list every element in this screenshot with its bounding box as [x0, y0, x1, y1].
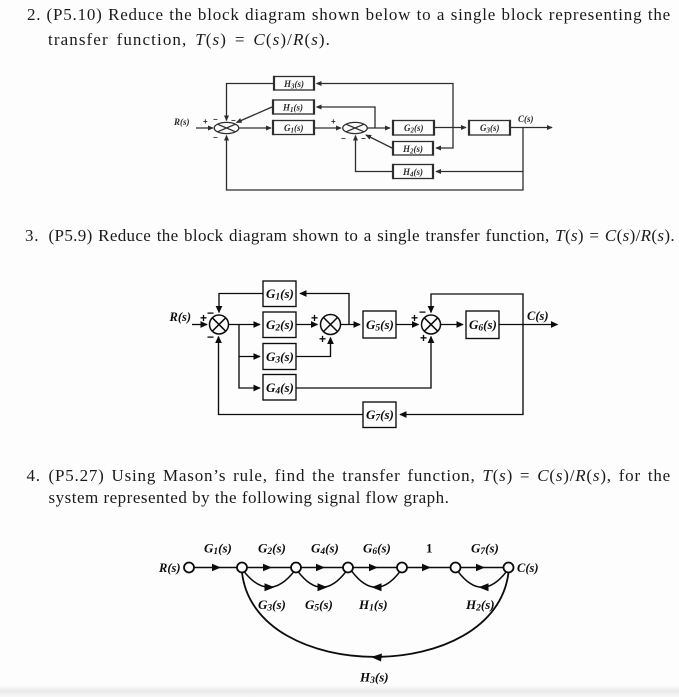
node signs at J3: [411, 305, 427, 345]
svg-text:+: +: [319, 332, 326, 346]
node n6: [451, 563, 461, 573]
node signs at J1: [200, 306, 214, 344]
label G4(s): [311, 541, 339, 558]
label H3(s): [359, 670, 389, 687]
block G3: [469, 121, 510, 136]
summer J1: [210, 315, 229, 334]
block H3: [274, 77, 314, 91]
wire tap down to H2: [436, 128, 453, 149]
wire C tap down to H4: [436, 128, 523, 172]
wire n5 to n6, gain 1: [407, 567, 450, 569]
wire S2 to G2 with tap node: [367, 127, 390, 129]
label G1(s): [204, 541, 232, 558]
svg-text:R(s): R(s): [173, 117, 190, 127]
block H4: [393, 165, 433, 179]
node C(s) output label: [518, 114, 534, 124]
wire R to n2, gain G1: [194, 567, 237, 569]
svg-text:G5(s): G5(s): [305, 597, 333, 614]
node R: [184, 563, 194, 573]
block G2: [263, 312, 296, 338]
wire H1 to S1 diagonal: [237, 107, 273, 123]
node n3: [291, 563, 301, 573]
svg-text:+: +: [311, 311, 318, 325]
block G7: [363, 402, 396, 428]
node n5: [397, 563, 407, 573]
svg-text:G6(s): G6(s): [363, 541, 391, 558]
wire G5 to J3: [396, 324, 419, 326]
wire G2 to G3: [434, 127, 466, 129]
wire G1 output to J1 top: [219, 294, 263, 313]
node n2: [237, 563, 247, 573]
svg-text:G1(s): G1(s): [284, 123, 304, 135]
svg-text:G3(s): G3(s): [258, 597, 286, 614]
wire G1 input tap from after J2: [300, 294, 349, 325]
svg-text:G5(s): G5(s): [366, 317, 394, 334]
block G3: [263, 344, 296, 370]
wire n6 to nC, gain G7: [461, 567, 504, 569]
node plus sign at S1: [203, 115, 236, 142]
paragraph item 4: [27, 466, 41, 486]
block H1: [273, 100, 314, 114]
label G3(s): [258, 597, 286, 614]
node C(s) label: [517, 561, 539, 575]
svg-text:+: +: [411, 311, 418, 325]
svg-text:G7(s): G7(s): [471, 541, 499, 558]
arc H1 n5 back to n4: [352, 572, 400, 588]
wire G7 output to J1 bottom: [219, 337, 364, 415]
summer J2: [321, 315, 341, 335]
svg-text:H2(s): H2(s): [402, 144, 423, 156]
summer S2: [343, 122, 368, 133]
node R(s) label: [158, 561, 181, 575]
svg-text:+: +: [203, 117, 208, 126]
block G1: [273, 121, 314, 135]
wire G3 to C(s) output: [510, 127, 552, 129]
bottom gray band: [0, 686, 679, 697]
wire tap to H1: [317, 107, 376, 128]
arc G5 n3 to n4: [298, 572, 346, 588]
svg-text:G4(s): G4(s): [311, 541, 339, 558]
wire G2 to J2: [296, 324, 318, 326]
summer J3: [422, 315, 441, 334]
wire branch to G4: [239, 357, 260, 389]
label G5(s): [305, 597, 333, 614]
svg-text:−: −: [341, 134, 346, 143]
block G5: [363, 311, 396, 338]
wire J3 to G6: [441, 324, 464, 326]
svg-text:G2(s): G2(s): [258, 541, 286, 558]
block G2: [393, 121, 434, 136]
svg-text:C(s): C(s): [517, 561, 539, 575]
wire J2 to G5: [341, 324, 361, 326]
svg-text:G2(s): G2(s): [404, 123, 424, 135]
svg-text:H3(s): H3(s): [359, 670, 389, 687]
svg-text:G7(s): G7(s): [366, 407, 394, 424]
svg-text:1: 1: [426, 541, 433, 556]
svg-text:−: −: [213, 115, 218, 124]
block H2: [393, 142, 433, 156]
wire J1 to G2 with branch node: [229, 324, 261, 326]
node plus sign at S2: [331, 117, 366, 143]
label 1: [426, 541, 433, 556]
paragraph item 3: [25, 226, 39, 246]
wire C tap to bottom feedback to S1: [227, 136, 524, 191]
svg-text:H1(s): H1(s): [358, 597, 388, 614]
svg-text:H2(s): H2(s): [465, 597, 495, 614]
arc H3 nC back to n2: [242, 573, 509, 657]
svg-text:H4(s): H4(s): [402, 167, 423, 179]
wire H4 to S2 bottom: [356, 136, 394, 172]
svg-text:G3(s): G3(s): [266, 349, 294, 366]
wire tap up to H3: [317, 84, 454, 128]
wire G3 output to J2 bottom: [296, 338, 331, 357]
svg-text:+: +: [200, 311, 207, 325]
node C(s) output label: [527, 309, 549, 323]
node R(s) input label: [173, 117, 190, 127]
block vertical edge emphasis: [273, 120, 314, 135]
svg-text:R(s): R(s): [158, 561, 181, 575]
node R(s) input label: [169, 310, 192, 324]
wire n3 to n4, gain G4: [301, 567, 343, 569]
svg-text:G1(s): G1(s): [204, 541, 232, 558]
wire branch down to G3 and G4: [239, 325, 260, 357]
wire R(s) to summer J1: [192, 324, 207, 326]
arc H2 nC back to n6: [458, 572, 507, 588]
wire G1 to summer S2: [314, 127, 341, 129]
wire G6 to C(s) output: [499, 324, 558, 326]
label G6(s): [363, 541, 391, 558]
wire S1 to G1: [239, 127, 271, 129]
block G1: [263, 281, 296, 307]
wire R(s) to summer S1: [196, 127, 213, 129]
summer S1: [214, 122, 239, 133]
wire C tap down to G7: [400, 325, 523, 415]
wire G4 output to J3 bottom: [296, 337, 431, 389]
wire n4 to n5, gain G6: [353, 567, 397, 569]
label G7(s): [471, 541, 499, 558]
svg-text:G3(s): G3(s): [480, 123, 500, 135]
svg-text:H1(s): H1(s): [282, 103, 303, 115]
wire H3 to S1 top: [227, 84, 275, 121]
svg-text:C(s): C(s): [518, 114, 534, 124]
svg-text:G4(s): G4(s): [266, 380, 294, 397]
svg-text:C(s): C(s): [527, 309, 549, 323]
label G2(s): [258, 541, 286, 558]
node nC: [504, 563, 514, 573]
label H1(s): [358, 597, 388, 614]
block G4: [263, 375, 296, 401]
node n4: [343, 563, 353, 573]
arc G3 n2 to n3: [244, 572, 294, 588]
wire n2 to n3, gain G2: [247, 567, 291, 569]
label H2(s): [465, 597, 495, 614]
svg-text:G1(s): G1(s): [266, 286, 294, 303]
svg-text:−: −: [361, 134, 366, 143]
svg-text:−: −: [213, 133, 218, 142]
svg-text:R(s): R(s): [169, 310, 192, 324]
wire H2 to S2 diagonal: [366, 135, 393, 149]
wire feedback C tap top into J3: [431, 294, 523, 325]
node signs at J2: [311, 311, 326, 346]
svg-text:+: +: [331, 117, 336, 126]
svg-text:G6(s): G6(s): [469, 317, 497, 334]
svg-text:H3(s): H3(s): [283, 79, 304, 91]
paragraph item 2: [27, 5, 41, 25]
block G6: [466, 311, 499, 339]
svg-text:G2(s): G2(s): [266, 317, 294, 334]
